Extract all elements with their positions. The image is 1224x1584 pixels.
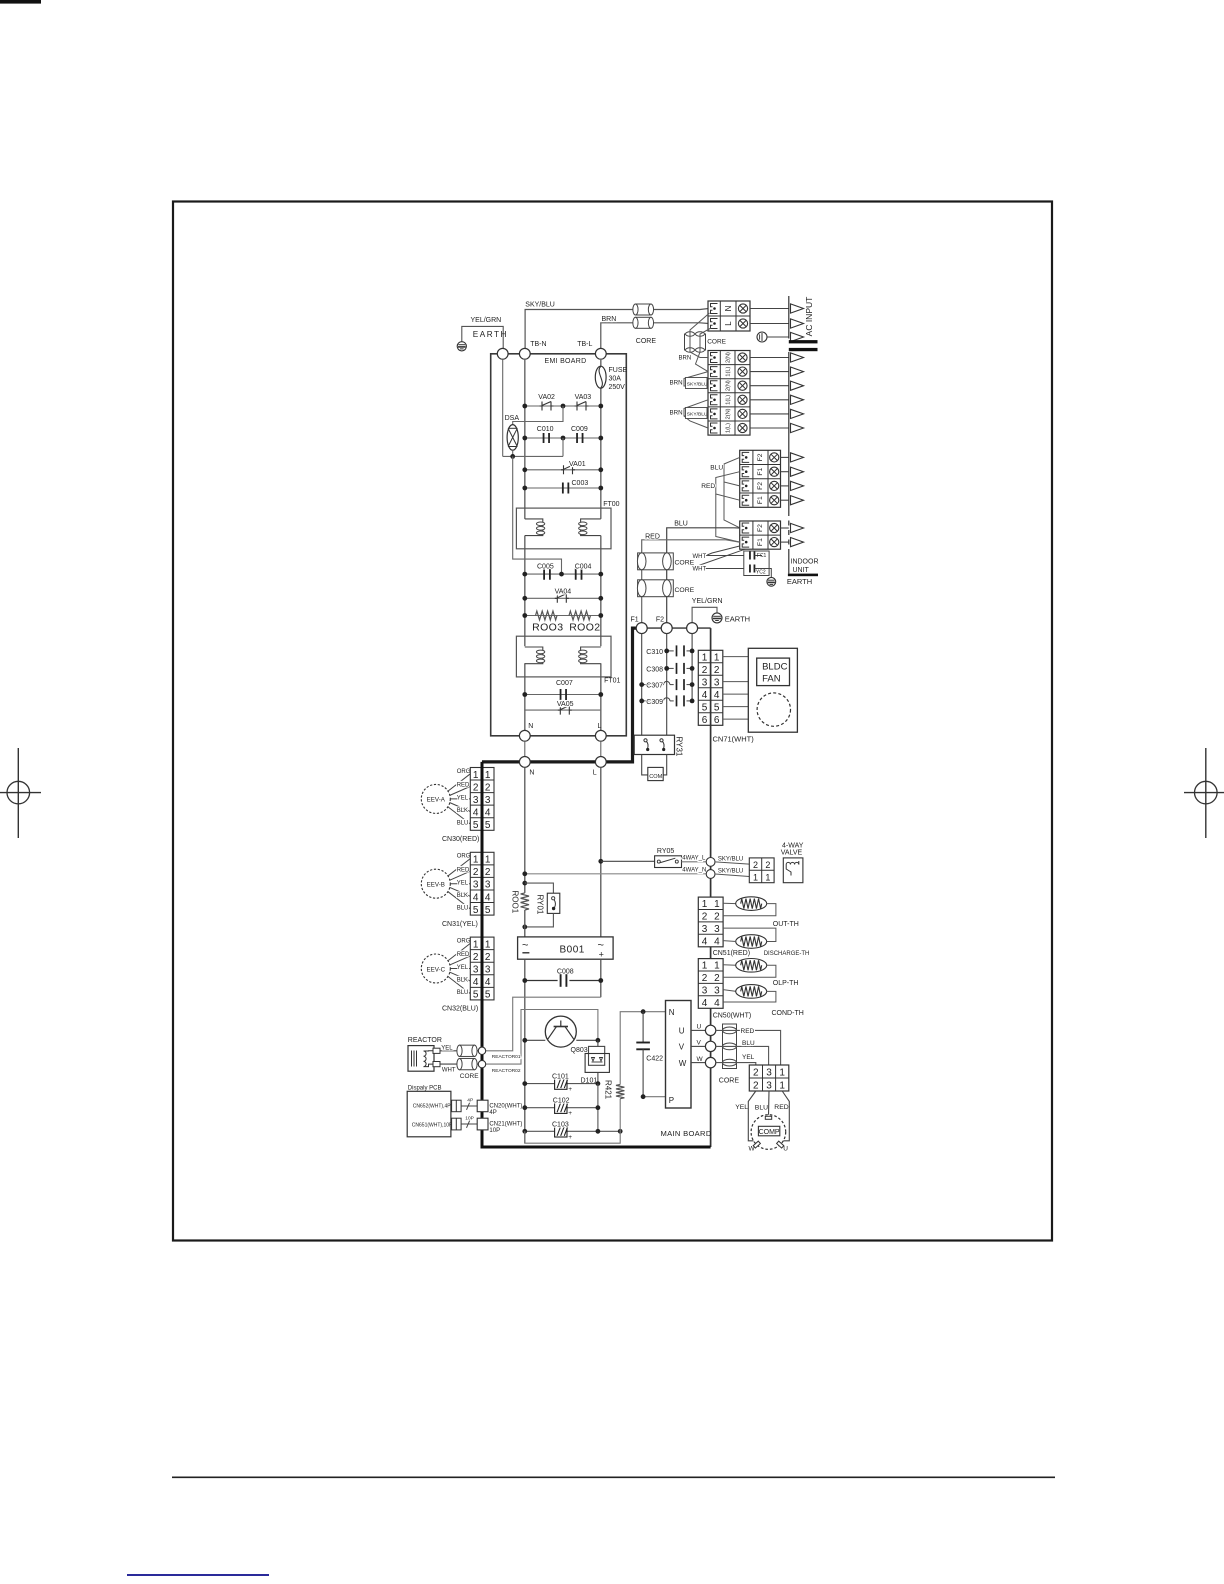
svg-text:F1: F1 <box>757 468 764 476</box>
wire BLU long from F2 node <box>667 528 740 623</box>
F-block clip row1 <box>742 452 749 462</box>
resistor R001 vertical <box>521 893 529 910</box>
svg-text:EARTH: EARTH <box>473 330 508 339</box>
node L lower <box>595 757 606 768</box>
arrow F row4 <box>791 496 804 505</box>
svg-text:CN71(WHT): CN71(WHT) <box>713 735 755 744</box>
svg-text:4: 4 <box>702 936 708 947</box>
svg-text:1(L): 1(L) <box>726 366 732 376</box>
svg-text:YEL: YEL <box>742 1054 755 1061</box>
wire reactor WHT <box>440 1063 478 1065</box>
svg-text:1: 1 <box>702 961 708 972</box>
main board bottom edge thick <box>481 1146 711 1149</box>
junction dots C010 row <box>522 436 603 441</box>
BLDC FAN label box <box>757 658 790 686</box>
svg-text:EMI BOARD: EMI BOARD <box>545 358 587 365</box>
svg-text:1: 1 <box>714 899 720 910</box>
CN31(YEL) pin numbers <box>473 855 491 916</box>
arrow indoor row1 <box>791 353 804 362</box>
node N lower <box>519 757 530 768</box>
wire display to CN20 <box>461 1098 477 1110</box>
svg-text:V: V <box>697 1040 702 1047</box>
svg-text:FUSE: FUSE <box>609 367 628 374</box>
wire row1 to arrow <box>750 357 789 359</box>
svg-text:F2: F2 <box>656 617 664 624</box>
svg-text:1(L): 1(L) <box>726 395 732 405</box>
capacitor C005 C004 row wire <box>525 559 601 574</box>
diode module D101 <box>585 1046 609 1072</box>
svg-text:2: 2 <box>714 665 720 676</box>
svg-text:BLU: BLU <box>457 990 469 996</box>
svg-text:MAIN BOARD: MAIN BOARD <box>661 1129 712 1138</box>
thick bar 1 <box>789 340 818 343</box>
svg-text:COMP: COMP <box>759 1129 780 1136</box>
svg-text:BLK: BLK <box>457 978 468 984</box>
wire D101 to C101 row <box>597 1072 599 1083</box>
wire F row4 to arrow <box>781 499 789 501</box>
svg-text:REACTOR01: REACTOR01 <box>492 1054 521 1060</box>
AC input earth screw symbol <box>757 332 789 342</box>
arrow indoor row5 <box>791 409 804 418</box>
terminal block F 2-row outline <box>740 521 781 549</box>
wire D101 column to C103 <box>597 1084 599 1132</box>
relay RY05 <box>655 856 682 868</box>
svg-text:RED: RED <box>645 533 660 540</box>
svg-text:EARTH: EARTH <box>725 615 750 624</box>
wire U RED <box>716 1030 781 1065</box>
thermistor COND-TH <box>723 985 776 1002</box>
svg-text:ORG: ORG <box>457 854 471 860</box>
junction dot 4WAY_N <box>522 871 527 876</box>
AC input bus vertical <box>788 296 790 339</box>
connector CN51(RED) block <box>698 897 723 947</box>
connector CN31(YEL) block <box>470 852 494 915</box>
svg-text:YEL: YEL <box>457 880 469 886</box>
surge arrester DSA <box>507 425 518 451</box>
label CN21(WHT) 10P <box>489 1122 522 1134</box>
CN32(BLU) pin numbers <box>473 939 491 1000</box>
svg-text:VA04: VA04 <box>555 589 572 596</box>
wire BRN from TB-L to L-N terminal <box>601 323 709 349</box>
svg-text:CN51(RED): CN51(RED) <box>713 950 750 957</box>
svg-text:3: 3 <box>714 924 720 935</box>
varistor VA03 <box>575 402 589 411</box>
bottom-left blue underline <box>127 1574 269 1576</box>
label INDOOR UNIT <box>791 558 819 574</box>
svg-text:1: 1 <box>702 652 708 663</box>
svg-text:L: L <box>724 321 733 326</box>
line filter FT01 right coil <box>579 647 601 664</box>
compressor lead wires <box>748 1091 789 1141</box>
svg-text:C007: C007 <box>556 680 573 687</box>
connector CN30(RED) block <box>470 768 494 831</box>
thermistor OLP-TH <box>723 959 776 978</box>
wire reactor02 branch <box>486 1010 598 1065</box>
svg-text:U: U <box>679 1027 685 1036</box>
svg-text:5: 5 <box>714 702 720 713</box>
svg-text:YEL: YEL <box>735 1104 748 1111</box>
wire V BLU <box>716 1046 769 1065</box>
arrow F row2 <box>791 467 804 476</box>
terminal clip L <box>711 319 718 329</box>
COM terminal box <box>648 767 664 780</box>
svg-text:VA03: VA03 <box>575 394 592 401</box>
svg-text:YEL/GRN: YEL/GRN <box>471 317 502 324</box>
junction dot DSA bottom <box>510 454 515 459</box>
svg-text:P: P <box>669 1096 674 1105</box>
wire 4WAY_N long <box>525 873 706 875</box>
node L on EMI bottom edge <box>595 730 606 741</box>
svg-text:L: L <box>598 723 602 730</box>
svg-text:CORE: CORE <box>636 338 657 345</box>
svg-text:C307: C307 <box>646 683 663 690</box>
fan motor circle <box>757 693 790 726</box>
wires EEV-C to connector <box>448 943 471 993</box>
wire F2-block row1 to arrow <box>781 527 789 529</box>
svg-text:COM.: COM. <box>649 774 664 780</box>
svg-text:TB-N: TB-N <box>530 341 546 348</box>
svg-text:C010: C010 <box>537 426 554 433</box>
svg-text:3: 3 <box>714 985 720 996</box>
svg-text:B001: B001 <box>560 944 585 955</box>
terminal screw row2 <box>738 367 747 376</box>
wire C422 to P terminal <box>643 1096 665 1098</box>
svg-text:U: U <box>783 1145 788 1152</box>
wire earth drop <box>691 634 693 701</box>
svg-text:UNIT: UNIT <box>793 567 810 574</box>
connector CN32(BLU) block <box>470 937 494 1000</box>
wires WHT to filter box <box>700 546 745 569</box>
wire lower DSA row <box>503 438 563 456</box>
wire R421 to N terminal <box>620 1012 665 1085</box>
varistor VA05 <box>558 706 572 715</box>
connector CN50(WHT) block <box>698 959 723 1009</box>
svg-text:1: 1 <box>753 873 758 883</box>
svg-text:RED: RED <box>701 483 715 490</box>
svg-text:3: 3 <box>485 965 491 976</box>
arrow indoor row3 <box>791 381 804 390</box>
node reactor02 <box>478 1060 485 1067</box>
wire B001 plus down <box>600 959 602 997</box>
core on indoor wires upper <box>637 553 673 570</box>
wire B001 minus down <box>524 959 526 1143</box>
4-way valve coil box <box>783 858 803 883</box>
core on AC input wires lower <box>633 317 654 328</box>
label 4-WAY VALVE <box>781 842 804 856</box>
svg-text:V: V <box>679 1043 685 1052</box>
junction dot C422 top <box>641 1009 646 1014</box>
svg-text:CORE: CORE <box>675 560 695 567</box>
svg-text:CN21(WHT): CN21(WHT) <box>489 1122 522 1128</box>
node TB-N <box>519 348 530 359</box>
svg-text:CN651(WHT),10P: CN651(WHT),10P <box>412 1123 453 1129</box>
junction dot RY01 bottom <box>522 925 527 930</box>
svg-text:N: N <box>669 1008 675 1017</box>
junction dots R row <box>522 613 603 618</box>
svg-text:3: 3 <box>485 880 491 891</box>
wire display to CN21 <box>461 1116 477 1128</box>
svg-text:REACTOR: REACTOR <box>408 1037 442 1044</box>
wires BRN/SKYBLU bracket rows 4-5 <box>684 400 708 428</box>
svg-text:1: 1 <box>779 1068 785 1079</box>
compressor terminal block 2 3 1 <box>749 1065 789 1092</box>
svg-text:C422: C422 <box>646 1055 663 1062</box>
svg-text:1: 1 <box>765 873 770 883</box>
svg-text:EARTH: EARTH <box>787 577 812 586</box>
arrow F2-block row1 <box>791 523 804 532</box>
svg-text:2: 2 <box>753 1081 759 1092</box>
label SKY/BLU boxed rows2-3 <box>686 378 708 389</box>
relay RY31 box <box>634 735 674 754</box>
F-block clip row3 <box>742 481 749 491</box>
wires through lower core <box>690 313 711 372</box>
wires 4way nodes to connector <box>715 862 749 877</box>
F2-block clip row2 <box>742 537 749 547</box>
capacitor C007 row wire <box>525 694 601 696</box>
svg-text:1: 1 <box>473 939 479 950</box>
svg-text:EEV-C: EEV-C <box>427 966 446 973</box>
svg-text:C005: C005 <box>537 564 554 571</box>
svg-text:CN652(WHT),4P: CN652(WHT),4P <box>413 1104 451 1110</box>
core on indoor wires lower <box>637 580 673 597</box>
svg-text:DISCHARGE-TH: DISCHARGE-TH <box>764 951 810 957</box>
node V <box>705 1041 715 1051</box>
svg-text:4: 4 <box>702 998 708 1009</box>
label SKY/BLU boxed rows4-5 <box>686 408 708 419</box>
arrow F2-block row2 <box>791 538 804 547</box>
labels wire colors EEV-A <box>457 769 471 827</box>
wires EEV-A to connector <box>448 774 471 824</box>
capacitor C010 <box>544 433 550 443</box>
junction dots VA04 row <box>522 596 603 601</box>
svg-text:SKY/BLU: SKY/BLU <box>525 302 555 309</box>
F2-block clip row1 <box>742 523 749 533</box>
varistor VA04 <box>555 594 569 603</box>
display connector pair 10P <box>452 1118 462 1130</box>
capacitor C102 row <box>522 1105 600 1110</box>
terminal clip row5 <box>711 409 718 419</box>
svg-text:5: 5 <box>473 905 479 916</box>
varistor VA05 row wire <box>525 709 601 711</box>
wire F2-block row2 to arrow <box>781 541 789 543</box>
svg-text:VA01: VA01 <box>569 461 586 468</box>
arrow AC input N <box>791 304 804 313</box>
svg-text:2(N): 2(N) <box>726 380 732 391</box>
wires BRN/SKYBLU bracket rows 2-3 <box>684 372 708 386</box>
svg-text:L: L <box>593 770 597 777</box>
wire F1 drop <box>641 634 643 736</box>
svg-text:WHT: WHT <box>693 554 707 560</box>
svg-text:+: + <box>568 1086 572 1093</box>
node F2 <box>661 623 672 634</box>
right registration mark <box>1184 748 1224 838</box>
svg-text:F2: F2 <box>757 524 764 532</box>
connector CN21 box <box>477 1118 488 1130</box>
svg-text:BLDC: BLDC <box>762 662 787 673</box>
wire F1 net upper block <box>716 472 740 542</box>
svg-text:1: 1 <box>702 899 708 910</box>
terminal clip row6 <box>711 423 718 433</box>
svg-text:SKY/BLU: SKY/BLU <box>718 856 743 862</box>
svg-text:2: 2 <box>485 782 491 793</box>
svg-text:2: 2 <box>702 912 708 923</box>
wire TB-N vertical (N line in EMI) <box>524 359 526 730</box>
wire RY01 branch bottom <box>525 913 554 927</box>
svg-text:250V: 250V <box>609 384 626 391</box>
filter capacitors FC1 YC2 box <box>744 551 772 578</box>
svg-text:4: 4 <box>485 892 491 903</box>
svg-text:C309: C309 <box>646 699 663 706</box>
wire F row2 to arrow <box>781 471 789 473</box>
node earth junction circle <box>497 348 508 359</box>
svg-text:1: 1 <box>485 855 491 866</box>
arrow F row1 <box>791 453 804 462</box>
svg-text:ORG: ORG <box>457 769 471 775</box>
svg-text:C003: C003 <box>572 480 589 487</box>
svg-text:1: 1 <box>779 1081 785 1092</box>
svg-text:1: 1 <box>485 770 491 781</box>
svg-text:4: 4 <box>473 977 479 988</box>
terminal block L-N outline <box>708 301 750 331</box>
capacitor C010 row wire <box>525 437 601 439</box>
svg-text:2: 2 <box>485 867 491 878</box>
thick wire from L node to F1 <box>482 628 637 762</box>
svg-text:AC INPUT: AC INPUT <box>804 297 814 337</box>
svg-text:4: 4 <box>714 998 720 1009</box>
terminal block F 4-row outline <box>740 450 781 507</box>
svg-text:4: 4 <box>473 807 479 818</box>
junction dots VA row <box>522 404 603 409</box>
capacitor C008 <box>522 974 603 987</box>
svg-text:CORE: CORE <box>719 1077 740 1084</box>
svg-text:2: 2 <box>485 952 491 963</box>
wire earth inner vertical <box>502 359 504 456</box>
indoor bus dashed segment <box>788 511 790 551</box>
svg-text:4: 4 <box>714 936 720 947</box>
node 4way N <box>706 870 715 879</box>
F-block screw row2 <box>770 467 779 476</box>
svg-text:FT00: FT00 <box>603 501 619 508</box>
junction dot RY01 top <box>522 881 527 886</box>
earth symbol chassis ground <box>457 342 466 351</box>
svg-text:3: 3 <box>714 677 720 688</box>
core on AC input wires upper <box>633 304 654 315</box>
svg-text:5: 5 <box>702 702 708 713</box>
svg-text:Dispaly PCB: Dispaly PCB <box>408 1085 442 1091</box>
terminal screw row3 <box>738 381 747 390</box>
svg-text:3: 3 <box>702 677 708 688</box>
svg-text:TB-L: TB-L <box>577 341 592 348</box>
node 4way L <box>706 858 715 867</box>
svg-text:BLU: BLU <box>457 821 469 827</box>
junction dots C007 row <box>522 692 603 697</box>
wire DSA hook <box>513 406 563 425</box>
svg-text:F1: F1 <box>631 617 639 624</box>
svg-text:CN30(RED): CN30(RED) <box>442 836 479 843</box>
F-block screw row3 <box>770 481 779 490</box>
svg-text:F1: F1 <box>757 496 764 504</box>
svg-text:1: 1 <box>485 939 491 950</box>
wire bottom rail <box>525 1099 620 1144</box>
outer border frame <box>173 202 1052 1241</box>
wire F row horizontal <box>642 627 711 629</box>
svg-text:CORE: CORE <box>675 587 695 594</box>
reactor box <box>408 1046 440 1072</box>
resistor R421 vertical <box>616 1085 624 1099</box>
label CN20(WHT) 4P <box>489 1103 522 1115</box>
indoor unit earth bar <box>788 574 818 577</box>
svg-text:RY31: RY31 <box>675 737 684 757</box>
svg-text:10P: 10P <box>489 1128 500 1134</box>
CN51(RED) pin numbers <box>702 899 720 947</box>
node earth F row <box>687 623 698 634</box>
terminal clip row4 <box>711 395 718 405</box>
svg-text:BLU: BLU <box>755 1105 768 1112</box>
svg-text:BRN: BRN <box>670 379 683 386</box>
svg-text:RED: RED <box>457 783 470 789</box>
svg-text:RED: RED <box>741 1028 755 1035</box>
core reactor lower <box>457 1058 477 1069</box>
terminal screw row5 <box>738 409 747 418</box>
arrow indoor row4 <box>791 395 804 404</box>
svg-text:2: 2 <box>714 912 720 923</box>
svg-text:C008: C008 <box>557 969 574 976</box>
svg-text:ROO2: ROO2 <box>569 622 600 634</box>
EMI board outline <box>491 354 627 736</box>
svg-text:W: W <box>697 1056 704 1063</box>
connector CN71 block <box>698 650 723 725</box>
capacitor C422 <box>636 1012 650 1097</box>
junction dots C003 row <box>522 486 603 491</box>
wire reactor01 branch <box>486 997 601 1051</box>
capacitor C003 row wire <box>525 487 601 489</box>
svg-text:VALVE: VALVE <box>781 849 803 856</box>
transistor Q803 <box>545 1016 576 1047</box>
BLDC fan box <box>748 648 797 732</box>
svg-text:SKY/BLU: SKY/BLU <box>687 411 708 417</box>
F2-block screw row2 <box>770 538 779 547</box>
svg-text:5: 5 <box>473 990 479 1001</box>
labels wire colors EEV-C <box>457 939 471 997</box>
node W <box>705 1057 715 1067</box>
svg-text:YC2: YC2 <box>756 569 766 575</box>
resistors R003 R002 row wire <box>525 615 601 617</box>
wire W YEL <box>716 1063 756 1065</box>
svg-text:3: 3 <box>766 1068 772 1079</box>
wire F row3 to arrow <box>781 485 789 487</box>
svg-text:BRN: BRN <box>602 316 617 323</box>
fuse F (30A 250V) <box>595 366 606 388</box>
svg-text:5: 5 <box>485 905 491 916</box>
svg-text:4: 4 <box>485 977 491 988</box>
svg-text:SKY/BLU: SKY/BLU <box>687 381 708 387</box>
main board left edge thick <box>481 762 484 1147</box>
capacitor C103 row <box>522 1129 622 1134</box>
wire RY01 branch top <box>525 883 554 893</box>
wires RY31 to COM <box>642 755 667 775</box>
svg-text:ROO1: ROO1 <box>511 891 520 914</box>
inverter output box N U V W P <box>666 1001 692 1109</box>
svg-text:C009: C009 <box>571 426 588 433</box>
svg-text:F2: F2 <box>757 482 764 490</box>
svg-text:1(L): 1(L) <box>726 423 732 433</box>
svg-text:1: 1 <box>714 961 720 972</box>
compressor COMP circle <box>751 1115 786 1150</box>
svg-text:CN20(WHT): CN20(WHT) <box>489 1103 522 1109</box>
wires CN71 to fan <box>723 657 749 720</box>
wire reactor YEL <box>440 1050 478 1052</box>
svg-text:YEL: YEL <box>457 796 469 802</box>
